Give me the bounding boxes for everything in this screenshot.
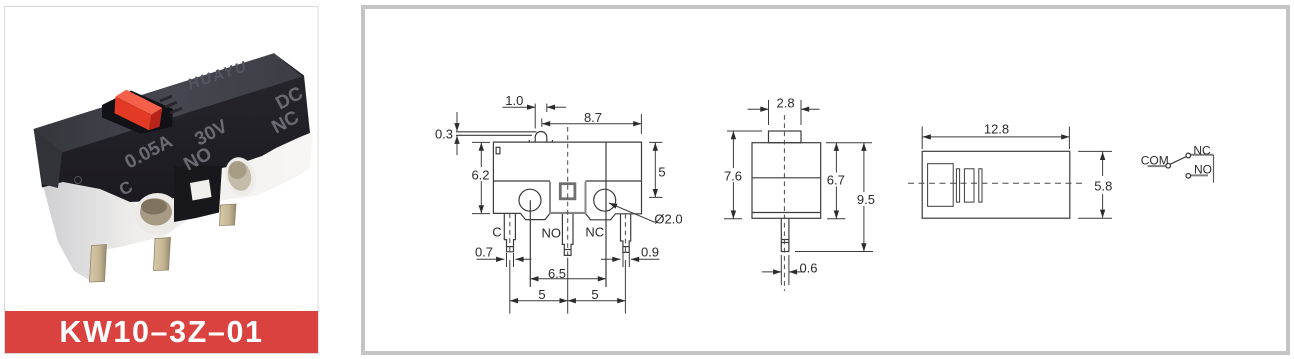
svg-text:5: 5 — [658, 165, 665, 180]
svg-text:0.7: 0.7 — [475, 245, 493, 260]
svg-text:NC: NC — [1193, 144, 1211, 158]
svg-text:8.7: 8.7 — [584, 110, 602, 125]
svg-text:6.7: 6.7 — [827, 173, 845, 188]
svg-text:0.6: 0.6 — [799, 261, 817, 276]
svg-text:7.6: 7.6 — [724, 169, 742, 184]
svg-text:KW10–3Z–01: KW10–3Z–01 — [59, 315, 263, 349]
svg-text:5: 5 — [591, 287, 598, 302]
svg-text:5: 5 — [538, 287, 545, 302]
svg-text:1.0: 1.0 — [505, 93, 523, 108]
svg-text:0.3: 0.3 — [435, 127, 453, 142]
svg-text:9.5: 9.5 — [857, 192, 875, 207]
svg-text:6.5: 6.5 — [548, 266, 566, 281]
svg-text:NC: NC — [585, 225, 604, 240]
svg-text:0.9: 0.9 — [641, 245, 659, 260]
svg-text:COM: COM — [1141, 153, 1169, 167]
svg-text:2.8: 2.8 — [777, 96, 795, 111]
svg-text:5.8: 5.8 — [1094, 179, 1112, 194]
svg-text:Ø2.0: Ø2.0 — [654, 212, 682, 227]
svg-text:NO: NO — [542, 226, 562, 241]
svg-text:C: C — [492, 225, 501, 240]
svg-text:NO: NO — [1194, 163, 1212, 177]
svg-text:6.2: 6.2 — [471, 168, 489, 183]
svg-text:12.8: 12.8 — [984, 122, 1009, 137]
